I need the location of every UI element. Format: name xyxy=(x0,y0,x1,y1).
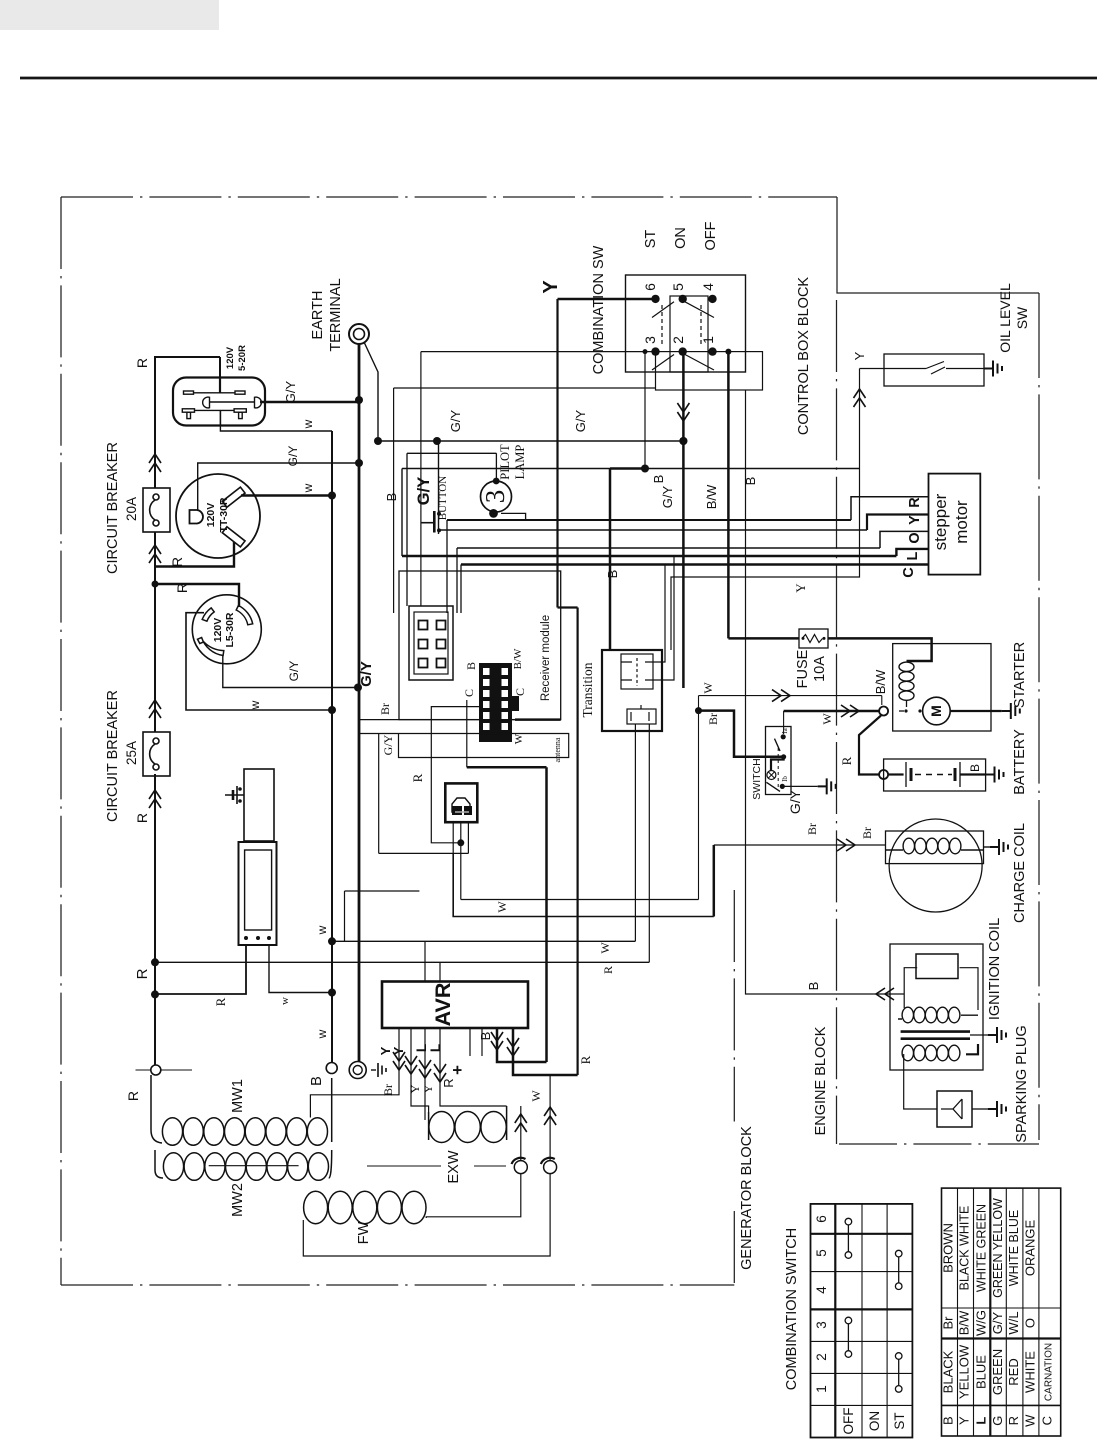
AVR pin B thick xyxy=(497,1028,547,1062)
wire switch Ia to starter W xyxy=(783,711,785,734)
svg-text:CARNATION: CARNATION xyxy=(1044,1343,1055,1401)
svg-text:R: R xyxy=(601,966,615,974)
wire L to stepper xyxy=(896,549,928,556)
svg-text:antenna: antenna xyxy=(553,737,562,762)
svg-text:G/Y: G/Y xyxy=(286,446,300,467)
control module display box xyxy=(239,842,277,945)
receptacle 120V 5-20R xyxy=(173,378,265,426)
comb sw lower frame xyxy=(656,352,763,390)
svg-text:O: O xyxy=(907,532,923,543)
svg-text:B: B xyxy=(478,1032,493,1041)
svg-text:C: C xyxy=(462,689,476,697)
circuit breaker 20A xyxy=(143,488,170,532)
svg-text:w: w xyxy=(301,419,315,429)
svg-text:LAMP: LAMP xyxy=(513,445,527,480)
svg-text:ST: ST xyxy=(892,1412,907,1429)
svg-text:3: 3 xyxy=(814,1321,829,1329)
AVR box xyxy=(382,982,528,1029)
svg-text:R: R xyxy=(1006,1416,1021,1425)
wire W thick to starter xyxy=(784,710,879,713)
svg-text:GREEN: GREEN xyxy=(990,1349,1005,1395)
svg-text:W: W xyxy=(820,713,834,725)
pilot lamp xyxy=(407,453,496,606)
slip ring left xyxy=(514,1161,527,1174)
svg-text:WHITE: WHITE xyxy=(1023,1351,1038,1393)
svg-text:CIRCUIT BREAKER: CIRCUIT BREAKER xyxy=(105,690,121,822)
svg-text:RED: RED xyxy=(1006,1358,1021,1385)
wire row y351 to pin3 xyxy=(421,351,656,353)
svg-text:ON: ON xyxy=(673,227,689,249)
svg-text:120V: 120V xyxy=(205,503,217,528)
svg-text:w: w xyxy=(315,1029,329,1039)
wire bundle Y thick xyxy=(402,555,896,558)
oil level switch xyxy=(884,354,984,386)
pin 6 xyxy=(651,295,659,303)
core lines xyxy=(901,1032,970,1039)
AVR pin R thick xyxy=(513,1028,578,1075)
solenoid coil xyxy=(899,662,914,671)
svg-text:R: R xyxy=(134,358,150,368)
wire Y from oil level sw xyxy=(671,369,860,651)
svg-text:Br: Br xyxy=(378,703,392,715)
wire G/Y main bus xyxy=(358,344,361,1062)
svg-text:ORANGE: ORANGE xyxy=(1023,1220,1038,1277)
wire W from relay to starter xyxy=(461,899,699,901)
svg-text:MW1: MW1 xyxy=(230,1079,246,1113)
svg-text:B: B xyxy=(806,982,821,991)
charge coil xyxy=(889,819,982,912)
control module upper box xyxy=(244,769,274,841)
svg-text:C: C xyxy=(513,688,527,696)
svg-text:G/Y: G/Y xyxy=(287,661,301,682)
wire G/Y from L5-30R xyxy=(223,655,358,688)
wire B thick to transition xyxy=(609,469,612,651)
wire R to L5-30R xyxy=(155,584,239,607)
engine switch xyxy=(766,727,792,795)
generator block dashed border xyxy=(61,197,837,1285)
pin 2 xyxy=(679,347,687,355)
wires from relay pins xyxy=(379,734,469,900)
wire B/W through fuse to starter xyxy=(728,638,931,661)
wire slip right up W xyxy=(549,1075,551,1161)
svg-text:TERMINAL: TERMINAL xyxy=(328,278,344,351)
svg-text:AVR: AVR xyxy=(431,982,455,1026)
fuse 10A xyxy=(799,629,828,648)
svg-text:motor: motor xyxy=(952,500,971,544)
starter assembly xyxy=(893,644,991,731)
svg-text:GREEN YELLOW: GREEN YELLOW xyxy=(991,1198,1005,1298)
wire bus R right xyxy=(576,608,578,1076)
svg-text:w: w xyxy=(248,700,262,710)
svg-text:2: 2 xyxy=(814,1353,829,1361)
wires transition upper connector xyxy=(653,556,674,680)
svg-text:Br: Br xyxy=(941,1316,956,1330)
svg-text:YELLOW: YELLOW xyxy=(957,1344,972,1399)
svg-text:B: B xyxy=(464,662,478,670)
svg-text:R: R xyxy=(213,997,228,1006)
wire B from pin3 down xyxy=(644,352,646,469)
svg-text:R: R xyxy=(134,813,150,823)
svg-text:6: 6 xyxy=(814,1215,829,1223)
control box block border xyxy=(837,197,1040,1144)
svg-text:B: B xyxy=(941,1416,956,1425)
svg-text:L5-30R: L5-30R xyxy=(224,612,236,647)
wire G/Y from TT-30R xyxy=(198,463,359,510)
svg-text:B: B xyxy=(384,493,399,502)
svg-text:EARTH: EARTH xyxy=(310,291,326,340)
svg-text:R: R xyxy=(441,1078,456,1087)
svg-text:Y: Y xyxy=(421,1084,435,1093)
svg-text:G/Y: G/Y xyxy=(415,477,433,505)
wire B thin from comb frame xyxy=(746,390,905,994)
svg-text:Br: Br xyxy=(706,713,720,725)
svg-text:OFF: OFF xyxy=(703,221,719,250)
svg-text:R: R xyxy=(839,756,854,765)
wire pin3 branch vertical xyxy=(420,352,422,606)
svg-text:Receiver module: Receiver module xyxy=(540,615,552,701)
svg-text:B: B xyxy=(968,764,982,772)
svg-text:R: R xyxy=(134,968,151,979)
MW1 terminal xyxy=(151,1065,161,1075)
receiver module outer box xyxy=(399,571,561,720)
svg-text:Y: Y xyxy=(408,1084,422,1093)
receiver 6-pin connector xyxy=(409,606,453,680)
ground terminal xyxy=(349,1062,366,1079)
svg-text:GENERATOR BLOCK: GENERATOR BLOCK xyxy=(739,1126,755,1270)
push button on module xyxy=(225,786,244,804)
wire W bus vertical xyxy=(331,431,333,1062)
AVR pin Y to EXW left xyxy=(411,1028,429,1112)
svg-text:B/W: B/W xyxy=(704,484,719,509)
svg-text:BLACK: BLACK xyxy=(941,1350,956,1393)
svg-text:Y: Y xyxy=(852,351,867,360)
wire row y388 xyxy=(394,387,656,389)
AVR pin stubs xyxy=(470,1028,482,1056)
svg-text:W: W xyxy=(701,682,715,694)
svg-text:Ia: Ia xyxy=(781,727,789,733)
svg-text:R: R xyxy=(125,1091,141,1101)
svg-text:Br: Br xyxy=(805,823,819,835)
slip ring right xyxy=(544,1161,557,1174)
relay connector block xyxy=(445,783,477,822)
svg-text:OIL LEVEL: OIL LEVEL xyxy=(997,283,1013,353)
svg-text:G/Y: G/Y xyxy=(283,380,298,403)
receptacle 120V L5-30R xyxy=(192,595,261,664)
svg-text:MW2: MW2 xyxy=(230,1183,246,1217)
wire bus thick mid xyxy=(545,767,548,1062)
wire bundle C xyxy=(447,519,851,521)
svg-text:SPARKING PLUG: SPARKING PLUG xyxy=(1014,1025,1030,1142)
wire G/Y antenna loop xyxy=(359,734,569,758)
svg-text:w: w xyxy=(301,483,315,493)
wire R from module xyxy=(155,945,246,994)
header rule xyxy=(20,77,1097,80)
svg-text:4: 4 xyxy=(814,1286,829,1294)
wire W from 5-20R xyxy=(220,426,332,431)
svg-text:2: 2 xyxy=(670,336,686,344)
svg-text:W/G: W/G xyxy=(974,1310,989,1336)
battery xyxy=(884,759,986,791)
svg-text:C: C xyxy=(1040,1416,1055,1425)
svg-text:IGNITION COIL: IGNITION COIL xyxy=(987,918,1003,1020)
svg-text:SW: SW xyxy=(1014,306,1030,329)
svg-text:STARTER: STARTER xyxy=(1012,642,1028,708)
svg-text:G/Y: G/Y xyxy=(448,409,463,432)
sparking plug xyxy=(904,1054,937,1109)
svg-text:W/L: W/L xyxy=(1006,1311,1021,1334)
svg-text:B: B xyxy=(605,570,620,579)
svg-text:5: 5 xyxy=(670,283,686,291)
MW2 winding xyxy=(155,1150,163,1178)
svg-text:120V: 120V xyxy=(212,618,224,643)
receptacle 120V TT-30R xyxy=(176,474,260,558)
svg-text:25A: 25A xyxy=(124,741,139,765)
svg-text:B: B xyxy=(309,1076,325,1086)
transition block xyxy=(602,650,662,731)
svg-text:G: G xyxy=(990,1416,1005,1426)
wire G/Y horizontal row xyxy=(378,440,684,442)
svg-text:Y: Y xyxy=(957,1416,972,1425)
node R bus junction xyxy=(152,581,159,588)
secondary coil xyxy=(966,1044,978,1054)
pin 1 xyxy=(708,347,716,355)
starter terminal xyxy=(879,707,888,716)
wire Y to stepper xyxy=(867,515,929,531)
svg-text:Ib: Ib xyxy=(781,776,789,782)
svg-text:ST: ST xyxy=(643,230,659,249)
AVR pin Br xyxy=(310,1028,399,1118)
pin 3 xyxy=(651,347,659,355)
wire w from module xyxy=(269,945,332,993)
svg-text:CONTROL BOX BLOCK: CONTROL BOX BLOCK xyxy=(796,277,812,436)
AVR pin L2 to EXW right xyxy=(440,1028,507,1106)
wire R to stepper xyxy=(851,497,929,520)
svg-text:CIRCUIT BREAKER: CIRCUIT BREAKER xyxy=(105,442,121,574)
svg-text:B: B xyxy=(651,475,666,484)
svg-text:Br: Br xyxy=(381,1084,395,1096)
svg-text:FUSE: FUSE xyxy=(795,649,811,688)
svg-text:Y: Y xyxy=(391,1046,406,1055)
svg-text:120V: 120V xyxy=(225,346,236,369)
stepper motor xyxy=(929,474,981,575)
wire W from L5-30R xyxy=(186,613,331,710)
pin 5 xyxy=(679,295,687,303)
svg-text:B/W: B/W xyxy=(512,648,524,669)
switch table contact links xyxy=(845,1218,902,1392)
svg-text:6: 6 xyxy=(642,283,658,291)
ignition coil xyxy=(890,944,983,1070)
wire Br to switch xyxy=(695,707,702,714)
combination switch box xyxy=(626,275,746,372)
svg-text:C: C xyxy=(901,567,917,578)
svg-text:20A: 20A xyxy=(124,497,139,521)
wire Y from combination sw pin6 xyxy=(558,299,578,608)
wire W from TT-30R xyxy=(241,494,332,497)
wire B row xyxy=(402,468,610,470)
svg-text:O: O xyxy=(1023,1318,1038,1328)
primary coil xyxy=(898,1015,978,1019)
wire slip left up xyxy=(520,1106,522,1161)
wire bundle L xyxy=(439,529,868,531)
wire stub near W bus xyxy=(345,891,420,941)
svg-text:BLUE: BLUE xyxy=(974,1355,989,1389)
svg-text:G/Y: G/Y xyxy=(381,734,395,755)
wire O to stepper xyxy=(880,531,929,548)
svg-text:ENGINE BLOCK: ENGINE BLOCK xyxy=(813,1026,829,1135)
svg-text:Y: Y xyxy=(793,583,808,593)
svg-text:4: 4 xyxy=(700,283,716,291)
starter motor M xyxy=(923,697,951,725)
svg-text:EXW: EXW xyxy=(446,1150,462,1183)
svg-text:W: W xyxy=(598,942,612,954)
svg-text:R: R xyxy=(578,1055,593,1064)
AVR pin L xyxy=(424,1028,426,1120)
FW winding xyxy=(304,1191,328,1223)
svg-text:G/Y: G/Y xyxy=(787,789,803,814)
svg-text:BROWN: BROWN xyxy=(941,1223,956,1273)
wire W thin upper xyxy=(699,696,882,705)
wire R to TT-30R xyxy=(155,542,234,567)
wire Br from relay to charge coil xyxy=(453,853,714,916)
svg-text:L: L xyxy=(428,1044,443,1052)
svg-text:SWITCH: SWITCH xyxy=(751,758,763,799)
svg-text:5: 5 xyxy=(814,1249,829,1257)
svg-text:W: W xyxy=(1023,1414,1038,1427)
svg-text:1: 1 xyxy=(814,1385,829,1393)
svg-text:OFF: OFF xyxy=(841,1408,856,1435)
svg-text:5-20R: 5-20R xyxy=(237,345,248,371)
wire C to stepper xyxy=(908,563,929,565)
svg-text:Y: Y xyxy=(907,515,923,525)
button G/Y xyxy=(438,441,440,534)
svg-text:W: W xyxy=(495,901,509,913)
svg-text:w: w xyxy=(279,997,291,1005)
svg-text:G/Y: G/Y xyxy=(358,661,375,687)
wire R from transition xyxy=(648,724,650,962)
wire G/Y switch ground xyxy=(785,785,818,787)
wire B/W from pin1 down xyxy=(727,352,730,639)
MW1 winding xyxy=(151,1075,162,1143)
wire Br row xyxy=(359,719,516,721)
wire bundle R thick xyxy=(461,563,908,566)
svg-text:L: L xyxy=(974,1417,989,1425)
svg-text:B: B xyxy=(743,477,758,486)
svg-text:G/Y: G/Y xyxy=(573,409,588,432)
EXW winding xyxy=(429,1106,507,1140)
svg-text:G/Y: G/Y xyxy=(990,1311,1005,1334)
wire W from transition xyxy=(634,724,636,941)
svg-text:Transition: Transition xyxy=(580,662,595,717)
wire G/Y from pin2 down xyxy=(682,352,685,688)
svg-text:+: + xyxy=(448,1065,467,1075)
svg-text:B/W: B/W xyxy=(957,1310,972,1335)
svg-text:R: R xyxy=(907,497,923,508)
svg-text:W: W xyxy=(513,733,525,744)
svg-text:W: W xyxy=(529,1090,543,1102)
wire colour legend table xyxy=(942,1188,1061,1436)
wire R row to transition xyxy=(155,961,649,963)
svg-text:w: w xyxy=(315,925,329,935)
svg-text:COMBINATION SWITCH: COMBINATION SWITCH xyxy=(784,1228,800,1390)
header grey bar xyxy=(0,0,219,30)
svg-text:3: 3 xyxy=(642,336,658,344)
svg-text:FW: FW xyxy=(356,1221,372,1244)
svg-text:Y: Y xyxy=(540,280,562,294)
wire bundle O xyxy=(457,547,880,549)
svg-text:TT-30R: TT-30R xyxy=(218,497,230,532)
wire Y to pin6 xyxy=(558,298,656,301)
svg-text:3: 3 xyxy=(480,490,510,504)
svg-text:R: R xyxy=(410,773,425,782)
wire G/Y from 5-20R xyxy=(260,401,359,404)
svg-text:BATTERY: BATTERY xyxy=(1012,729,1028,795)
svg-text:G/Y: G/Y xyxy=(660,485,675,508)
svg-text:BUTTON: BUTTON xyxy=(437,476,449,520)
combination switch table xyxy=(811,1204,913,1438)
B output terminal xyxy=(326,1063,337,1074)
wire Br to charge coil xyxy=(714,844,886,846)
svg-text:L: L xyxy=(905,551,921,560)
circuit breaker 25A xyxy=(143,732,170,776)
svg-text:Br: Br xyxy=(860,827,874,839)
wire W row to transition xyxy=(332,940,635,942)
svg-text:stepper: stepper xyxy=(931,493,950,550)
svg-text:B/W: B/W xyxy=(873,669,888,694)
svg-text:10A: 10A xyxy=(812,656,828,682)
switch contact wedges xyxy=(652,302,714,370)
wire R to relay connector xyxy=(431,707,479,843)
svg-text:PILOT: PILOT xyxy=(498,444,512,480)
AVR top stubs xyxy=(425,941,440,981)
wire R bus left column xyxy=(155,357,220,1065)
svg-text:CHARGE COIL: CHARGE COIL xyxy=(1012,823,1028,923)
svg-text:BLACK WHITE: BLACK WHITE xyxy=(958,1206,972,1291)
svg-text:WHITE BLUE: WHITE BLUE xyxy=(1007,1210,1021,1286)
svg-text:L: L xyxy=(414,1044,429,1052)
receiver 10-pin connector xyxy=(479,663,519,742)
svg-text:WHITE GREEN: WHITE GREEN xyxy=(975,1204,989,1292)
svg-text:1: 1 xyxy=(700,336,716,344)
pin 4 xyxy=(708,295,716,303)
wire from earth terminal diagonal xyxy=(364,342,378,441)
svg-text:M: M xyxy=(928,705,944,717)
svg-text:ON: ON xyxy=(867,1411,882,1431)
svg-text:COMBINATION SW: COMBINATION SW xyxy=(591,245,607,374)
wire to 6-pin left xyxy=(393,388,395,613)
